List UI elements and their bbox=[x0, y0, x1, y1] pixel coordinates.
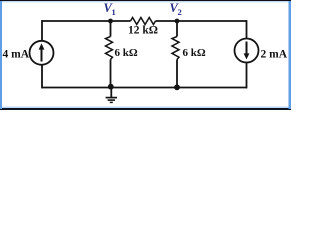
svg-text:2: 2 bbox=[178, 7, 182, 17]
node V1 (junction dot on top wire) bbox=[108, 19, 113, 24]
svg-text:4 mA: 4 mA bbox=[3, 49, 30, 61]
resistor R3 12 kOhm (horizontal zigzag between V1 and V2) bbox=[131, 18, 156, 25]
resistor R2 6 kOhm (vertical zigzag below V2) bbox=[172, 37, 179, 60]
svg-text:6 kΩ: 6 kΩ bbox=[183, 47, 206, 59]
wire branch V1 upper bbox=[110, 21, 112, 37]
svg-text:6 kΩ: 6 kΩ bbox=[115, 47, 138, 59]
wire right above source bbox=[246, 20, 248, 39]
wire branch V2 upper bbox=[176, 21, 178, 37]
label node voltage V2 bbox=[170, 1, 182, 17]
current source I1 4 mA (circle, arrow up) bbox=[30, 41, 54, 65]
node V2 (junction dot on top wire) bbox=[175, 19, 180, 24]
svg-text:1: 1 bbox=[112, 7, 116, 17]
label node voltage V1 bbox=[104, 1, 116, 17]
wire branch V2 lower bbox=[176, 60, 178, 88]
wire bottom bbox=[42, 87, 247, 89]
current source I2 2 mA (circle, arrow down) bbox=[235, 39, 259, 63]
resistor R1 6 kOhm (vertical zigzag below V1) bbox=[106, 37, 113, 60]
svg-text:12 kΩ: 12 kΩ bbox=[128, 24, 158, 36]
wire top-left segment (node V1 to top-left corner) bbox=[42, 20, 131, 22]
wire top-right segment (resistor to V2 and corner) bbox=[156, 20, 248, 22]
node junction (dot on bottom wire below R2) bbox=[174, 84, 180, 90]
node ground junction (dot on bottom wire below R1) bbox=[108, 84, 114, 90]
wire left below source bbox=[41, 65, 43, 89]
wire right below source bbox=[246, 62, 248, 88]
wire branch V1 lower bbox=[110, 60, 112, 88]
svg-text:2 mA: 2 mA bbox=[261, 49, 288, 61]
ground symbol bbox=[106, 88, 117, 103]
wire left above source bbox=[41, 20, 43, 41]
